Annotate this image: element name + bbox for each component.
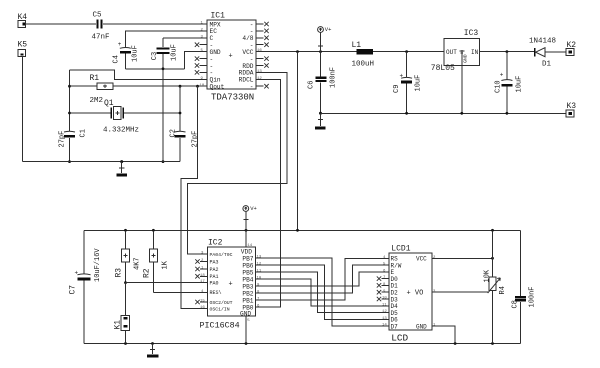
svg-text:+ VO: + VO xyxy=(407,290,424,298)
svg-text:11: 11 xyxy=(382,303,387,307)
svg-text:GND: GND xyxy=(210,49,221,56)
wire net GND of IC1: pin GND to ground link xyxy=(185,52,207,69)
wire net PB6 to LCD D6 xyxy=(256,265,390,319)
crystal Q1 4.332MHz xyxy=(103,99,139,135)
wire net MPX: K4 to C5 to IC1 pin MPX xyxy=(26,23,207,25)
svg-text:78L05: 78L05 xyxy=(431,64,455,73)
svg-text:+: + xyxy=(500,72,504,79)
svg-text:4K7: 4K7 xyxy=(133,257,141,270)
IC1 pin numbers xyxy=(200,22,263,88)
connector K5 xyxy=(18,40,28,56)
svg-text:10uF: 10uF xyxy=(132,45,140,62)
LCD left pin stubs xyxy=(382,258,390,326)
svg-text:IC1: IC1 xyxy=(211,11,226,20)
wire net PB7 to LCD D7 xyxy=(256,258,390,326)
svg-text:R3: R3 xyxy=(115,268,124,278)
capacitor C2 27pF xyxy=(169,129,199,147)
wire power return rail to K3 xyxy=(321,112,567,115)
svg-text:Q1: Q1 xyxy=(104,99,114,108)
svg-text:L1: L1 xyxy=(352,41,362,50)
wire net RDDA: IC1 RDDA to IC2 PA04/T0C xyxy=(188,72,287,254)
svg-text:10uF: 10uF xyxy=(415,75,423,92)
IC2 right pin stubs xyxy=(256,258,264,307)
svg-text:VCC: VCC xyxy=(242,49,253,56)
LCD pin labels left column xyxy=(391,256,402,331)
IC2 pin labels left column xyxy=(210,252,233,313)
wire +5V rail of MCU section xyxy=(84,229,520,232)
svg-text:IC2: IC2 xyxy=(208,238,223,247)
svg-text:C9: C9 xyxy=(393,85,401,93)
svg-text:OSC1/IN: OSC1/IN xyxy=(210,306,230,312)
svg-text:C6: C6 xyxy=(308,81,316,89)
svg-text:16: 16 xyxy=(200,306,205,310)
capacitor C4 10uF electrolytic xyxy=(113,41,140,64)
svg-text:15: 15 xyxy=(200,300,205,304)
wire net RDCL: IC1 RDCL to IC2 PB0 xyxy=(256,79,281,307)
wire VCC feed down to +5V rail of MCU section xyxy=(297,52,299,231)
svg-text:27pF: 27pF xyxy=(59,131,67,148)
wire net PB4 to LCD D4 xyxy=(256,279,390,306)
svg-text:PIC16C84: PIC16C84 xyxy=(200,320,240,330)
IC1 pin labels left column xyxy=(210,21,225,90)
IC2 PIC16C84 body xyxy=(200,238,256,330)
svg-text:17: 17 xyxy=(200,280,205,284)
wire net RES: R2 to IC2 RES xyxy=(153,291,207,293)
svg-text:PA0: PA0 xyxy=(210,281,219,287)
svg-text:K2: K2 xyxy=(567,41,577,50)
svg-text:IN: IN xyxy=(471,49,479,56)
capacitor C6 100nF xyxy=(308,52,338,114)
wire net VCC rail: IC1 VCC to L1 xyxy=(256,50,356,53)
IC2 GND stub to ground rail xyxy=(245,316,247,343)
svg-text:PB7: PB7 xyxy=(242,255,253,262)
svg-text:10uF/16V: 10uF/16V xyxy=(94,248,102,282)
svg-text:PB3: PB3 xyxy=(242,283,253,290)
svg-text:PB4: PB4 xyxy=(242,276,253,283)
svg-text:C3: C3 xyxy=(151,52,159,60)
svg-text:PB5: PB5 xyxy=(242,269,253,276)
wire C3 bottom to ground rail xyxy=(162,54,165,163)
connector K3 xyxy=(566,102,576,117)
IC1 no-connect x marks left xyxy=(195,43,199,75)
capacitor C7 10uF/16V xyxy=(69,248,103,295)
IC3 78L05 regulator xyxy=(431,29,480,73)
svg-text:10: 10 xyxy=(382,297,387,301)
svg-text:RES\: RES\ xyxy=(210,290,222,296)
node R vertical with C2 xyxy=(179,86,182,161)
IC2 left pin stubs xyxy=(200,254,208,309)
potentiometer R4 10K xyxy=(483,230,507,343)
wire C4 bottom to ground link xyxy=(125,54,184,69)
wire left edge with C7 xyxy=(83,230,85,343)
wire ground rail top-left xyxy=(22,161,180,163)
svg-text:LCD: LCD xyxy=(391,332,408,343)
svg-text:C5: C5 xyxy=(93,11,103,19)
svg-text:PA2: PA2 xyxy=(210,267,219,273)
svg-text:PB1: PB1 xyxy=(242,297,253,304)
svg-text:PA1: PA1 xyxy=(210,274,219,280)
wire net OSC: Qout node to IC2 OSC1/IN xyxy=(181,86,208,308)
svg-text:1N4148: 1N4148 xyxy=(529,38,556,46)
svg-text:+: + xyxy=(118,41,122,48)
wire net QIN: IC1 pin Qin to crystal node L xyxy=(70,70,208,79)
svg-text:PA3: PA3 xyxy=(210,259,219,265)
node L vertical with C1 xyxy=(68,70,71,163)
svg-text:LCD1: LCD1 xyxy=(391,245,410,254)
capacitor C9 10uF xyxy=(393,52,423,114)
svg-text:PB2: PB2 xyxy=(242,290,253,297)
IC1 right pin stubs xyxy=(256,24,264,86)
wire V+ to IC2 VDD xyxy=(245,230,247,247)
diode D1 1N4148 xyxy=(529,38,566,69)
svg-text:C8: C8 xyxy=(512,300,520,308)
svg-text:1K: 1K xyxy=(161,260,169,269)
resistor R2 1K xyxy=(143,230,170,292)
wire net PB5 to LCD D5 xyxy=(256,272,390,313)
capacitor C5 47nF xyxy=(92,11,110,41)
capacitor C3 10uF xyxy=(151,44,179,61)
svg-text:V+: V+ xyxy=(325,26,332,33)
svg-text:18: 18 xyxy=(200,274,205,278)
svg-text:K3: K3 xyxy=(567,102,577,111)
wire net LCD VCC to +5V xyxy=(432,257,494,260)
svg-text:R1: R1 xyxy=(90,74,100,83)
svg-text:2M2: 2M2 xyxy=(90,97,104,105)
ground symbol G3 xyxy=(147,344,158,358)
IC2 pin labels right column xyxy=(242,255,253,311)
inductor L1 100uH xyxy=(352,41,375,68)
svg-text:D1: D1 xyxy=(542,61,552,69)
LCD no-connect x marks D0-D3 xyxy=(377,276,381,301)
wire net PB1 to LCD RS xyxy=(256,258,390,300)
svg-text:VCC: VCC xyxy=(416,256,427,263)
svg-text:C7: C7 xyxy=(69,285,78,295)
IC1 left pin stubs xyxy=(200,24,208,86)
svg-text:47nF: 47nF xyxy=(92,33,110,41)
IC2 pin numbers xyxy=(200,244,262,323)
svg-text:C4: C4 xyxy=(113,55,121,63)
svg-text:13: 13 xyxy=(382,317,387,321)
svg-text:10uF: 10uF xyxy=(515,76,523,93)
wire K5 to ground rail xyxy=(21,57,23,162)
svg-text:10: 10 xyxy=(200,84,205,88)
wire crystal row xyxy=(70,112,181,114)
svg-text:C2: C2 xyxy=(169,129,177,137)
svg-text:14: 14 xyxy=(382,324,387,328)
svg-text:K1: K1 xyxy=(114,320,123,330)
wire net QOUT: IC1 pin Qout through R1 xyxy=(70,85,208,88)
LCD pin numbers xyxy=(382,256,436,328)
wire ground rail of MCU section xyxy=(84,342,520,345)
wire net C: IC1 pin C to C3 xyxy=(163,38,207,47)
IC1 no-connect x marks right xyxy=(264,22,268,89)
svg-text:GND: GND xyxy=(463,54,469,63)
wire net VO: LCD to pot wiper xyxy=(432,291,488,293)
svg-text:OUT: OUT xyxy=(446,49,457,56)
wire net EC: IC1 pin EC to C4 xyxy=(125,31,207,48)
svg-text:+: + xyxy=(400,72,404,79)
svg-text:PA04/T0C: PA04/T0C xyxy=(210,252,233,258)
wire net LCD GND to ground rail xyxy=(432,326,455,343)
svg-text:C10: C10 xyxy=(494,80,502,93)
resistor R3 4K7 xyxy=(115,230,142,282)
IC1 pin labels right column xyxy=(239,21,254,90)
svg-text:K4: K4 xyxy=(18,13,28,22)
svg-text:14: 14 xyxy=(247,244,252,248)
svg-text:PB0: PB0 xyxy=(242,304,253,311)
resistor R1 2M2 xyxy=(90,74,114,105)
wire right edge with C8 xyxy=(519,230,521,343)
svg-text:GND: GND xyxy=(416,323,427,330)
wire L1 to IC3 OUT xyxy=(373,50,444,53)
svg-text:+: + xyxy=(75,269,79,276)
capacitor C10 10uF xyxy=(494,52,523,114)
svg-text:10uF: 10uF xyxy=(171,44,179,61)
svg-text:C1: C1 xyxy=(79,129,87,137)
svg-text:PB6: PB6 xyxy=(242,262,253,269)
wire net PB3 to LCD E xyxy=(256,272,390,286)
svg-text:+: + xyxy=(229,53,233,61)
svg-text:V+: V+ xyxy=(250,205,257,212)
connector K4 xyxy=(18,13,28,28)
svg-text:10K: 10K xyxy=(483,269,491,282)
svg-text:100nF: 100nF xyxy=(329,67,337,88)
svg-text:27pF: 27pF xyxy=(192,131,200,148)
svg-text:D7: D7 xyxy=(391,323,399,330)
svg-text:100nF: 100nF xyxy=(529,286,537,307)
svg-text:K5: K5 xyxy=(18,40,28,49)
svg-text:OSC2/OUT: OSC2/OUT xyxy=(210,300,233,306)
svg-text:R2: R2 xyxy=(143,268,152,278)
svg-text:TDA7330N: TDA7330N xyxy=(211,93,254,103)
connector K2 xyxy=(566,41,576,56)
capacitor C1 27pF xyxy=(59,129,88,147)
power symbol V+ top xyxy=(318,26,332,51)
power symbol V+ bottom xyxy=(243,205,257,230)
wire IC3 GND to bottom rail xyxy=(461,66,463,114)
svg-text:IC3: IC3 xyxy=(464,29,479,38)
svg-text:12: 12 xyxy=(382,310,387,314)
svg-text:VDD: VDD xyxy=(241,248,252,255)
svg-text:R4: R4 xyxy=(499,286,507,294)
wire net PB2 to LCD R/W xyxy=(256,265,390,293)
LCD1 module body xyxy=(389,245,432,344)
IC2 no-connect x marks xyxy=(195,259,199,304)
ground symbol G2 below C6 xyxy=(315,112,326,130)
wire net PA0: R3/K1 node to IC2 PA0 xyxy=(124,281,207,284)
svg-text:100uH: 100uH xyxy=(352,60,375,68)
wire IC3 IN to D1 xyxy=(480,50,534,53)
connector K1 xyxy=(114,283,130,344)
capacitor C8 100nF xyxy=(512,286,537,308)
IC1 TDA7330N body xyxy=(207,11,256,102)
svg-text:Qout: Qout xyxy=(210,84,225,91)
svg-text:4.332MHz: 4.332MHz xyxy=(103,126,139,134)
ground symbol G1 xyxy=(117,160,128,176)
svg-text:-: - xyxy=(250,84,254,91)
svg-text:+: + xyxy=(229,280,233,288)
